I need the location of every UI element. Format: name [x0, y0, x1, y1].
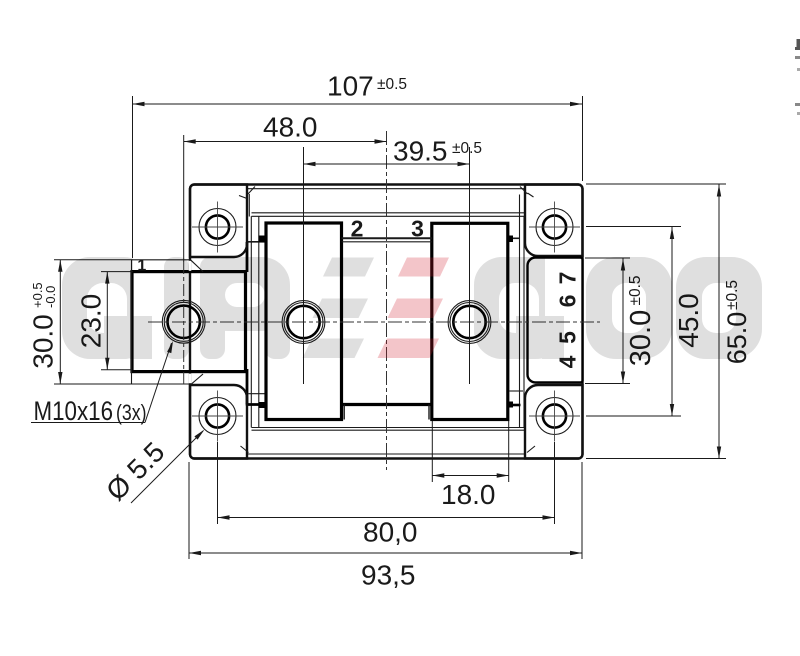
watermark red E bars — [378, 258, 450, 359]
dim 80,0 — [218, 442, 555, 548]
mounting hole bottom-right — [529, 391, 580, 442]
mounting tab top-right — [520, 185, 583, 257]
dim 48.0 — [184, 112, 387, 144]
terminal 1 block — [132, 272, 246, 372]
gap recess bottom — [342, 405, 432, 420]
terminal block 3 — [432, 223, 508, 419]
dim 23.0 — [76, 272, 134, 370]
dim 45.0 — [586, 227, 704, 417]
mounting hole bottom-left — [192, 391, 243, 442]
mounting tab bottom-right — [525, 385, 583, 459]
dim 107 — [133, 71, 583, 259]
control terminal block 4567 — [528, 258, 583, 383]
terminal 2 axis / 39.5 extension — [303, 147, 305, 384]
dim 93,5 — [189, 462, 582, 591]
terminal circle 2 — [282, 301, 325, 344]
dim 30.0 left with tolerance — [28, 260, 132, 384]
mounting hole top-left — [192, 202, 243, 253]
terminal 1 lug outline — [132, 260, 191, 384]
gap recess top lines — [342, 238, 432, 242]
label diameter 5.5 — [100, 430, 204, 507]
mounting tab top-left — [190, 185, 255, 258]
terminal block 2 — [266, 223, 342, 420]
right body wall — [507, 195, 524, 428]
right edge cropped text fragments — [795, 39, 800, 115]
dim 39.5 — [304, 136, 483, 167]
terminal circle 1 — [162, 300, 205, 343]
dim 30.0 right with tolerance — [585, 258, 657, 384]
module flange outline — [190, 185, 583, 459]
body bottom shelf lines — [252, 428, 525, 431]
mounting tab bottom-left — [190, 385, 249, 459]
horizontal center line — [148, 321, 600, 323]
terminal circle 3 — [448, 301, 491, 344]
labels 4 5 6 7 — [555, 272, 581, 369]
vertical center line — [386, 131, 388, 470]
dim 18.0 — [432, 421, 508, 510]
terminal 1 axis / 48.0 extension — [183, 135, 185, 384]
flange edge cutouts at lug — [189, 261, 192, 271]
flange left edge chamfers — [191, 260, 204, 385]
dim 65.0 with tolerance — [586, 184, 752, 459]
label M10x16 (3x) — [31, 341, 173, 426]
mounting hole top-right — [529, 202, 580, 253]
left body wall — [246, 216, 266, 427]
body top shelf line — [252, 212, 525, 214]
terminal 3 axis / 39.5 extension — [469, 147, 471, 384]
